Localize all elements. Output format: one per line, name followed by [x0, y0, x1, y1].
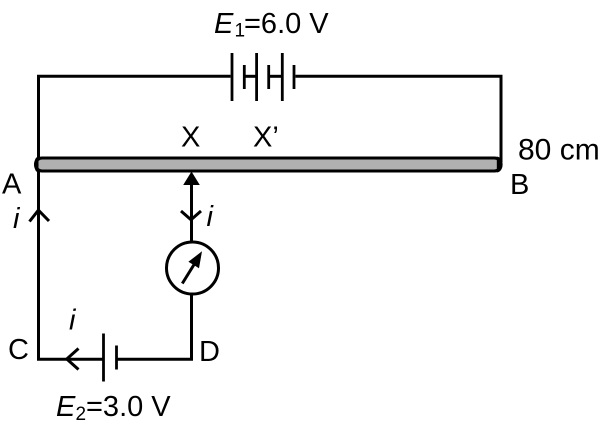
current arrow i (galvanometer branch, chevron pointing down) — [181, 211, 201, 220]
svg-text:B: B — [510, 169, 529, 201]
label E1=6.0 V — [214, 8, 329, 42]
svg-text:D: D — [199, 336, 220, 368]
svg-text:i: i — [13, 203, 21, 235]
svg-text:C: C — [8, 334, 29, 366]
svg-text:X’: X’ — [253, 122, 279, 154]
wire galvanometer branch upper (X to galvanometer) — [190, 178, 193, 241]
svg-text:E: E — [214, 8, 234, 40]
svg-text:i: i — [69, 305, 77, 337]
svg-text:=6.0 V: =6.0 V — [244, 8, 329, 40]
galvanometer needle — [182, 263, 195, 284]
battery E1 (3 cells) — [232, 53, 294, 101]
wire galvanometer branch lower (galvanometer to D) and bottom wire D to battery — [117, 295, 192, 359]
current arrow i (left branch, chevron pointing up) — [30, 210, 50, 221]
svg-text:X: X — [181, 122, 200, 154]
svg-text:E: E — [56, 391, 76, 423]
label E2=3.0 V — [56, 391, 171, 424]
svg-text:A: A — [2, 169, 22, 201]
current arrow i (bottom wire, chevron pointing left) — [67, 349, 79, 370]
slide wire AB (80 cm) — [36, 158, 502, 171]
jockey contact arrow at X (filled, pointing up into wire) — [183, 172, 200, 186]
slide wire left end cap (black) — [34, 157, 38, 173]
svg-text:80 cm: 80 cm — [518, 134, 600, 167]
svg-text:=3.0 V: =3.0 V — [86, 391, 171, 423]
wire top-left segment and left wire A-C and bottom-left corner — [39, 76, 231, 359]
slide wire right end cap (black) — [497, 157, 503, 173]
battery E2 (long plate left, short plate right) — [104, 334, 117, 382]
svg-text:2: 2 — [76, 404, 87, 424]
svg-text:i: i — [207, 201, 215, 233]
galvanometer G circle — [167, 242, 219, 294]
wire top-right segment and right wire down to B — [296, 76, 502, 162]
